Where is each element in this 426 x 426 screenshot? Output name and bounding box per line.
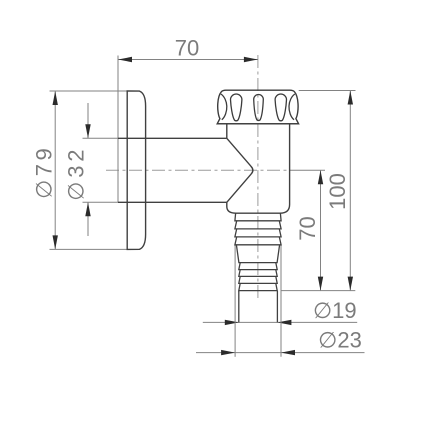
hose barb upper group band 4 [235, 237, 281, 245]
outlet tube ø19 [239, 291, 278, 323]
hose barb lower group band 4 [239, 283, 277, 290]
pipe ø32 top edge [118, 137, 227, 139]
dimension 70 top line [118, 59, 258, 61]
hose barb lower group band 2 [239, 270, 277, 277]
dimension ø32 line [87, 103, 89, 138]
svg-text:∅32: ∅32 [63, 146, 88, 201]
dimension 100 line right [349, 91, 351, 291]
svg-text:∅19: ∅19 [313, 298, 357, 323]
hose barb lower group band 1 [239, 263, 277, 270]
knob knurled handle [217, 90, 298, 124]
knurl slot teardrop 3 [275, 94, 286, 121]
flange wall plate ø79 [127, 91, 145, 249]
hose barb middle taper [236, 245, 279, 263]
hose barb lower group band 3 [239, 276, 277, 283]
svg-text:70: 70 [295, 216, 320, 240]
knob bottom rim line [217, 123, 298, 125]
dimension 70 right line [320, 170, 322, 290]
wire wall-face extension line [117, 56, 119, 203]
svg-text:∅23: ∅23 [318, 328, 362, 353]
centerline horizontal pipe axis [106, 169, 290, 171]
dimension ø19 line [203, 321, 357, 323]
hose barb upper group band 1 [235, 213, 281, 220]
dimension ø79 line [54, 91, 56, 249]
svg-text:100: 100 [325, 173, 350, 210]
dimension ø23 line [196, 352, 365, 354]
svg-text:∅79: ∅79 [32, 145, 57, 199]
pipe ø32 bottom edge [118, 201, 227, 203]
knurl slot left crescent [221, 94, 227, 120]
hose barb upper group band 3 [235, 229, 281, 237]
knurl slot right crescent [289, 94, 295, 120]
svg-text:70: 70 [175, 36, 199, 61]
knurl slot teardrop 1 [231, 94, 242, 121]
valve body [227, 124, 290, 213]
knurl slot teardrop 2 [254, 95, 264, 121]
centerline vertical outlet axis [257, 55, 259, 301]
hose barb upper group band 2 [235, 221, 281, 229]
extension lines ø23 barb max [234, 245, 236, 357]
